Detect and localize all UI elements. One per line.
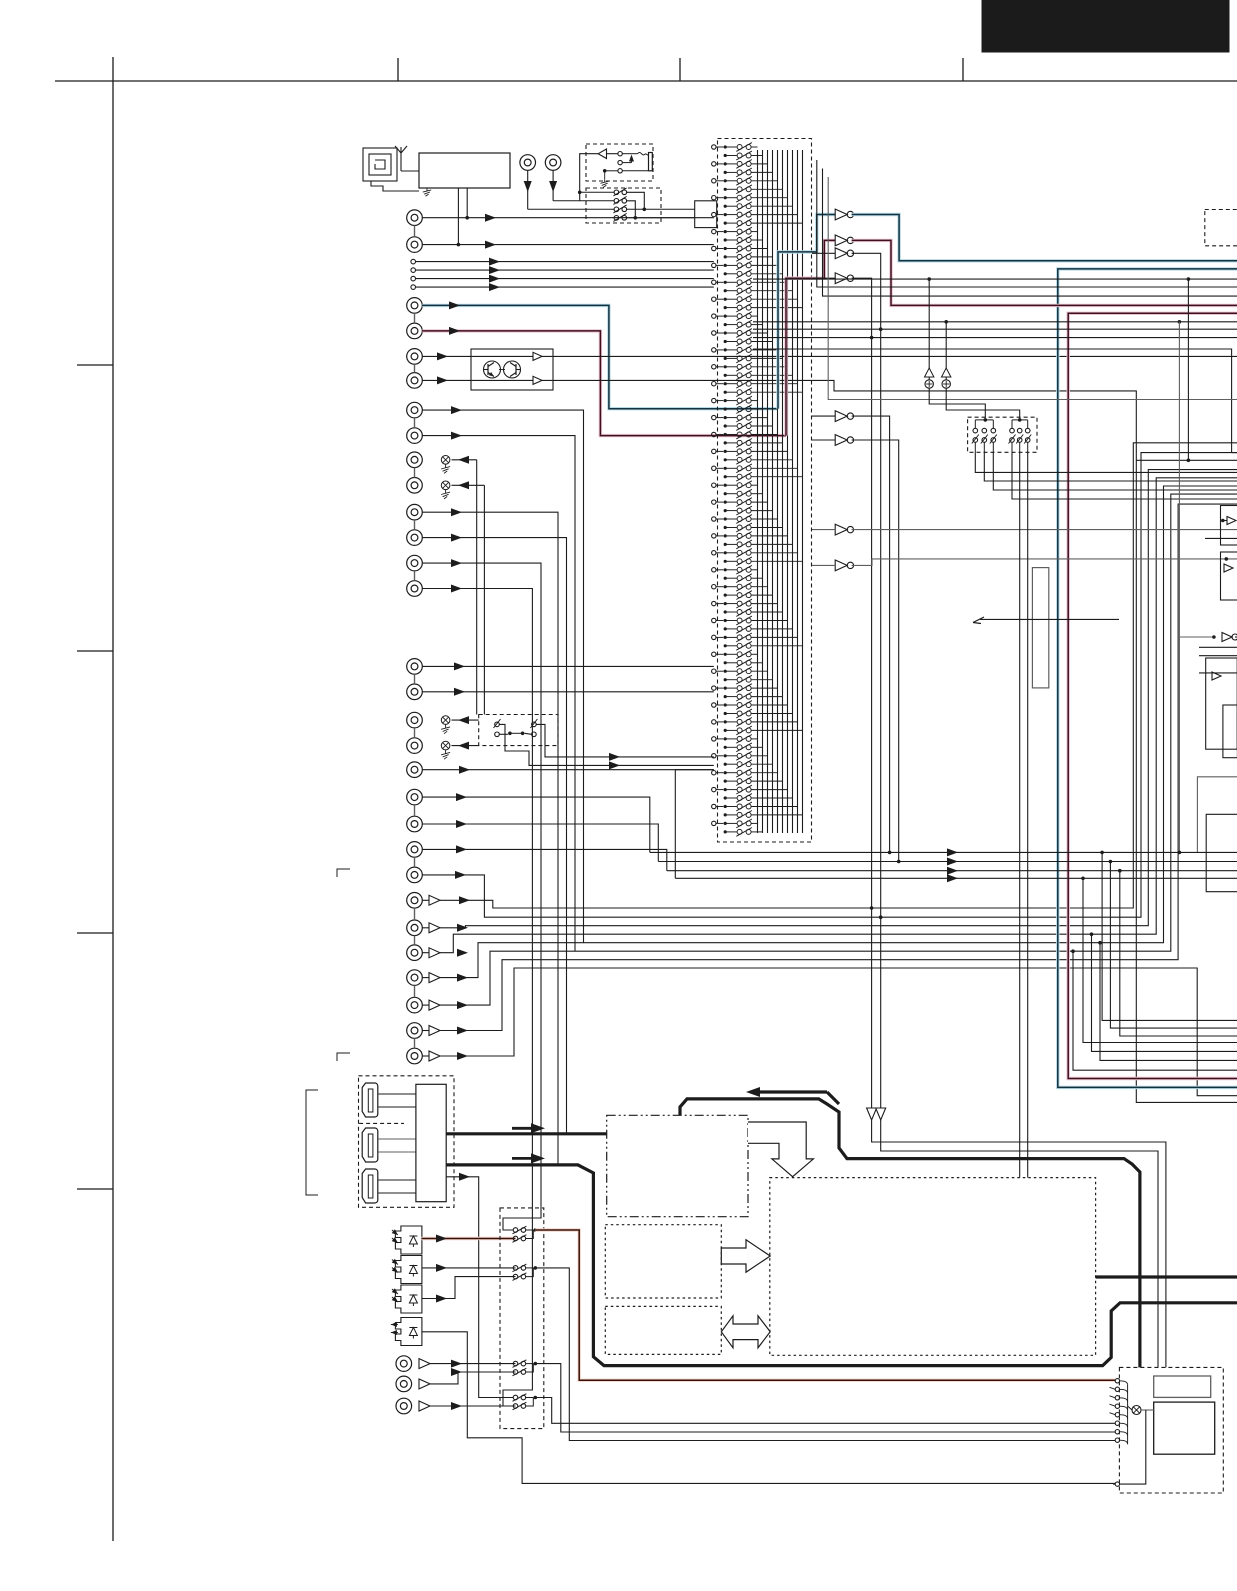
corner mark B	[337, 1053, 350, 1061]
wire crimson B2 out to right	[852, 240, 1237, 305]
wire PHONO R (crimson)	[422, 331, 786, 436]
RCA jack PHONO R	[407, 323, 423, 339]
buffer B4	[835, 273, 847, 284]
wire VIDEO	[422, 769, 714, 771]
RCA jack C1	[407, 893, 423, 909]
RCA jack SAT R	[407, 581, 423, 597]
wire terminal pin 2 to connector	[416, 269, 714, 271]
buffer B1 (teal)	[835, 209, 847, 220]
video switch outputs to DSP	[1019, 452, 1021, 1177]
RCA jack C6	[407, 1023, 423, 1039]
headphone jack contacts	[618, 152, 622, 156]
wire headphone to relay	[580, 154, 599, 201]
buffer in head amp box 2	[533, 376, 542, 384]
optical jack OPT1	[395, 1226, 422, 1254]
jack stem	[414, 571, 416, 581]
reset line	[980, 618, 1119, 620]
RCA jack COAX2	[396, 1376, 412, 1392]
ground symbol at TAPE OUT L	[441, 456, 450, 465]
digital switch SW2	[513, 1266, 518, 1271]
wire COAX2	[430, 1372, 516, 1384]
RCA jack C2	[407, 920, 423, 936]
wire tuner to jacks	[457, 188, 459, 245]
relay switch contact row 1	[580, 191, 614, 193]
video select switch box (dashed)	[968, 417, 1037, 452]
headphone ground	[604, 171, 606, 179]
optical jack OPT3	[395, 1285, 422, 1313]
wire V2	[422, 824, 658, 862]
wire CD L down	[527, 170, 529, 209]
wire SW2 out	[535, 1268, 1115, 1441]
bundle corner verticals 2	[1090, 932, 1094, 936]
wire B3 out to DSP arrow	[852, 253, 881, 1108]
head amp box	[471, 349, 553, 390]
amp box RA2	[1221, 552, 1237, 600]
border tick left 3	[77, 932, 113, 934]
jack stem	[414, 1038, 416, 1048]
sub connector pin 6	[1115, 1421, 1119, 1425]
wire exit row 460	[1136, 459, 1237, 461]
border tick left 4	[77, 1188, 113, 1190]
bundle corner verticals to bottom-right exits	[1102, 852, 1237, 1020]
terminal pin 2	[411, 268, 416, 273]
HDMI thin control wire	[446, 1177, 513, 1398]
wire B6 out	[852, 440, 899, 862]
RCA jack TAPE OUT R	[407, 478, 423, 494]
RCA jack VIDEO	[407, 762, 423, 778]
terminal pin 4	[411, 285, 416, 290]
RCA jack C4	[407, 970, 423, 986]
border tick left 1	[77, 364, 113, 366]
block arrow B to DSP (double)	[721, 1316, 770, 1348]
buffer amp for C7	[429, 1051, 440, 1061]
wire OPT3	[422, 1277, 516, 1299]
video select switch column 5	[1017, 428, 1022, 433]
buffer B3	[835, 248, 847, 259]
HDMI connector 1	[362, 1083, 378, 1117]
jack stem	[414, 226, 416, 237]
HDMI thick output arrow 2	[531, 1153, 545, 1163]
wire OPT4	[422, 1332, 1116, 1484]
jack stem	[414, 313, 416, 323]
wire teal B1 out to right	[852, 215, 1237, 261]
jack stem	[414, 857, 416, 867]
loop antenna ANT1	[363, 148, 397, 181]
RCA jack LINE1 L	[407, 349, 423, 365]
RCA jack C7	[407, 1048, 423, 1064]
video select switch column 4	[1010, 428, 1015, 433]
buffer COAX1	[419, 1359, 430, 1369]
border tick top 3	[962, 58, 964, 81]
RCA jack PHONO L	[407, 298, 423, 314]
video select switch column 6	[1025, 428, 1030, 433]
block arrow from HDMI rx to DSP	[748, 1122, 813, 1177]
thick wire from DSP1 top	[680, 1099, 1140, 1368]
rec select switch 1	[495, 722, 500, 727]
HDMI jack block (dashed)	[359, 1076, 455, 1208]
wire jack TUNER-L to connector	[422, 217, 714, 219]
wire C2	[440, 470, 1237, 928]
terminal pin 3	[411, 276, 416, 281]
jack stem	[414, 728, 416, 738]
corner wire right edge 2 (U)	[1206, 814, 1237, 891]
sub block A (dashed)	[605, 1225, 721, 1298]
sub connector pin 7	[1115, 1430, 1119, 1434]
wire PHONO L (teal)	[422, 305, 778, 408]
wire jack TUNER-R to connector	[422, 244, 714, 246]
HDMI input group divider (dashed)	[359, 1122, 404, 1124]
wire C6	[440, 504, 1237, 1030]
sub connector pin 5	[1115, 1413, 1119, 1417]
jack stem	[414, 674, 416, 684]
RCA jack V1	[407, 789, 423, 805]
wire terminal pin 4 to connector	[416, 286, 714, 288]
thick wire corner	[827, 1092, 839, 1104]
wire teal inside connector	[778, 215, 835, 409]
sub connector pin 8	[1115, 1438, 1119, 1442]
terminal pin 1	[411, 259, 416, 264]
wire crimson return (from right edge)	[1068, 313, 1237, 1078]
wire B4 out to DSP arrow	[852, 278, 872, 1108]
wire from arrow 2 to sub connector	[881, 1120, 1158, 1367]
optical jack OPT2	[395, 1256, 422, 1284]
RCA jack TUNER L	[407, 210, 423, 226]
relay switch contact row 2	[553, 200, 614, 202]
transistor Q1	[484, 361, 501, 378]
video select switch column 3	[991, 428, 996, 433]
corner mark A	[337, 869, 350, 877]
buffer amp for C1	[429, 895, 440, 905]
headphone amp box (dashed)	[586, 144, 653, 181]
block arrow A to DSP	[721, 1240, 770, 1272]
wire B5 out	[852, 416, 890, 852]
wire DVD R	[422, 538, 566, 1134]
wire to MONITOR L	[452, 719, 479, 721]
digital switch SW3	[513, 1361, 518, 1366]
RCA jack AUX R	[407, 684, 423, 700]
border tick top 1	[397, 58, 399, 81]
buffer in RA2	[1224, 564, 1233, 572]
jack stem	[414, 468, 416, 478]
wire exit row A3	[823, 169, 1237, 297]
reset line arrow	[973, 617, 984, 623]
loop antenna lead	[371, 181, 419, 191]
transistor Q2	[504, 361, 521, 378]
jack stem	[414, 985, 416, 997]
ground symbol at TAPE OUT R	[441, 481, 450, 490]
wire LINE1 R to buffer box	[422, 379, 471, 381]
ground symbol MONITOR R	[441, 741, 450, 750]
gray corner to right edge	[1197, 777, 1237, 853]
HDMI connector 3	[362, 1169, 378, 1203]
video switch top ties	[974, 420, 976, 428]
sub connector common vertical	[1127, 1385, 1129, 1444]
page border left vertical	[112, 57, 114, 1541]
HDMI connector 1 leads	[379, 1093, 416, 1095]
amp box RB1	[1206, 658, 1237, 749]
stub wires near right boxes	[1205, 537, 1237, 539]
RCA jack LINE2 R	[407, 428, 423, 444]
wire node down to pin	[1120, 1410, 1146, 1484]
mixing node symbol	[1132, 1406, 1141, 1415]
RCA jack SAT L	[407, 555, 423, 571]
jack stem	[414, 805, 416, 816]
page border top horizontal	[55, 80, 1237, 82]
RCA jack V2	[407, 816, 423, 832]
headphone switch actuator arrow	[622, 162, 631, 164]
buffer COAX2	[419, 1379, 430, 1389]
sub connector pin 1	[1115, 1379, 1119, 1383]
wire V3	[422, 849, 667, 870]
wire from arrow 1 to sub connector	[872, 1120, 1166, 1367]
wire exit row 452	[1232, 452, 1237, 454]
wire DVD L	[422, 512, 558, 1165]
video select switch column 1	[973, 428, 978, 433]
rod antenna ANT2	[400, 153, 402, 171]
wire V1	[422, 797, 650, 852]
border tick left 2	[77, 650, 113, 652]
reset IC (vertical)	[1032, 568, 1048, 688]
rec select outputs to connector	[536, 724, 714, 757]
off-page reference symbol P1	[925, 368, 934, 377]
thick arrow wire	[758, 1090, 827, 1093]
digital input switch box (dashed)	[500, 1208, 544, 1429]
border tick top 2	[679, 58, 681, 81]
wire B7 out to right edge	[852, 529, 1237, 531]
relay output terminal box	[695, 201, 717, 228]
optical jack OPT4 (output)	[395, 1318, 422, 1346]
wire C5	[440, 494, 1237, 1005]
thick DSP output to right edge	[1096, 1275, 1237, 1278]
jack stem	[414, 418, 416, 428]
wire LINE1 L output (to right edge)	[542, 355, 1237, 357]
headphone sleeve contact	[622, 170, 648, 172]
board connector CN101 (dashed outline)	[718, 139, 812, 843]
relay switch contact row 4	[614, 216, 619, 221]
RCA jack CD L	[520, 155, 536, 171]
video switch outputs to right edge	[975, 452, 1237, 472]
wire C4	[440, 486, 1237, 978]
wire LINE1 R output (via bus)	[542, 380, 1237, 1102]
jack stem	[414, 908, 416, 920]
headphone amp buffer	[598, 149, 606, 159]
wire exit row A2	[817, 160, 1237, 287]
bus vertical (gray)	[1178, 322, 1180, 853]
wire B8 out to right edge	[852, 559, 1237, 566]
HDMI switch IC box	[416, 1084, 446, 1201]
RCA jack V3	[407, 842, 423, 858]
lone buffer	[1222, 633, 1232, 642]
wire terminal pin 1 to connector	[416, 261, 714, 263]
wire LINE1 L to buffer box	[422, 355, 471, 357]
wire to MONITOR R	[452, 745, 479, 747]
buffer COAX3	[419, 1401, 430, 1411]
wire SW4 out	[535, 1398, 1115, 1424]
sub board connector box (dashed)	[1119, 1367, 1223, 1493]
sub connector pin 4	[1115, 1404, 1119, 1408]
wire COAX3	[430, 1405, 516, 1407]
connector CN101 pin rows	[712, 145, 716, 149]
wire exit row A8 (gray)	[828, 177, 1237, 400]
RCA jack DVD L	[407, 504, 423, 520]
wire video row 4	[675, 877, 1237, 879]
wire to TAPE OUT R	[452, 484, 485, 486]
connector CN101 bus verticals	[757, 150, 759, 833]
RCA jack TAPE OUT L	[407, 452, 423, 468]
RCA jack LINE1 R	[407, 373, 423, 389]
buffer amp for C5	[429, 1000, 440, 1010]
wire exit row A1	[753, 278, 1237, 280]
wire CD R down	[552, 170, 554, 201]
wire to TAPE OUT L	[452, 459, 477, 461]
wire OPT2	[422, 1267, 516, 1269]
buffer amp for C4	[429, 973, 440, 983]
jack stem	[414, 520, 416, 530]
wire teal return (from right edge)	[1058, 269, 1237, 1088]
buffer amp for C6	[429, 1026, 440, 1036]
wire video row 2	[658, 861, 1237, 863]
HDMI connector 3 leads	[379, 1179, 416, 1181]
wire SW3 out	[535, 1364, 1115, 1432]
RCA jack LINE2 L	[407, 402, 423, 418]
amp box RA1	[1221, 506, 1237, 546]
wire junction vertical V1188	[1187, 279, 1189, 460]
wire P1 to video switch	[929, 388, 985, 419]
RCA jack C5	[407, 997, 423, 1013]
HDMI thick output arrow 1	[531, 1123, 545, 1133]
wire V4	[422, 453, 1237, 918]
wire exit row A6	[753, 337, 1237, 339]
RCA jack V4	[407, 867, 423, 883]
tuner ground	[426, 188, 428, 191]
wire LINE2 R	[422, 436, 575, 952]
wire C7	[440, 968, 1237, 1096]
sub connector pin 2	[1115, 1387, 1119, 1391]
relay output junctions	[627, 192, 645, 209]
wire SAT L	[422, 563, 541, 1230]
rec select switch 2	[532, 722, 537, 727]
RCA jack CD R	[545, 155, 561, 171]
buffer in RB1	[1212, 672, 1221, 680]
RCA jack COAX3	[396, 1398, 412, 1414]
ground symbol MONITOR L	[441, 716, 450, 725]
RCA jack COAX1	[396, 1356, 412, 1372]
wire LINE2 L	[422, 410, 583, 943]
RCA jack TUNER R	[407, 237, 423, 253]
RCA jack AUX L	[407, 659, 423, 675]
wire COAX1	[430, 1363, 516, 1365]
wire SAT R	[422, 589, 532, 1407]
RCA jack MONITOR R	[407, 738, 423, 754]
buffer in head amp box 1	[533, 352, 542, 360]
buffer B2 (crimson)	[835, 235, 847, 246]
wire video row4 riser	[675, 770, 714, 879]
wire C3	[440, 478, 1237, 953]
HDMI receiver block (dash-dot)	[607, 1115, 748, 1216]
wire lone buffer feed	[1179, 636, 1212, 638]
sub board IC2	[1154, 1402, 1215, 1454]
sub connector pin 9	[1115, 1482, 1119, 1486]
HDMI connector 2 leads	[379, 1138, 416, 1140]
wire video row 3	[667, 870, 1237, 872]
RCA jack DVD R	[407, 530, 423, 546]
buffer amp for C3	[429, 948, 440, 958]
sub connector pin 3	[1115, 1396, 1119, 1400]
title block (black)	[982, 0, 1229, 52]
buffer in RA1	[1227, 517, 1236, 525]
video select switch column 2	[982, 428, 987, 433]
digital switch SW4	[513, 1395, 518, 1400]
HDMI thick output wire	[446, 1165, 1237, 1366]
relay switch contact row 3	[528, 208, 614, 210]
buffer B8	[835, 560, 847, 571]
buffer B6	[835, 435, 847, 446]
wire terminal pin 3 to connector	[416, 278, 714, 280]
signal arrows into DSP block	[867, 1108, 877, 1120]
off-page reference symbol P2	[942, 368, 951, 377]
headphone jack sleeve	[649, 153, 653, 171]
wire exit row A4	[753, 321, 1237, 323]
wire exit row A5	[753, 328, 1237, 330]
sub board IC1	[1154, 1376, 1211, 1397]
HDMI connector 2	[362, 1128, 378, 1162]
wire C1	[440, 443, 1237, 908]
wire SW1 out (maroon)	[535, 1230, 1115, 1380]
jack stem	[414, 936, 416, 945]
top right dashed box (off page)	[1205, 210, 1237, 246]
amp box RB2	[1223, 705, 1237, 758]
wire exit row A7	[753, 349, 1232, 453]
relay box (dashed)	[586, 188, 661, 223]
buffer B5	[835, 411, 847, 422]
buffer B7	[835, 524, 847, 535]
wire node to IC2	[1141, 1409, 1154, 1411]
HDMI wire to DSP1	[446, 1132, 607, 1135]
wire P2 to video switch	[946, 388, 1020, 419]
buffer amp for C2	[429, 923, 440, 933]
wire OPT1 (maroon)	[422, 1237, 516, 1240]
jack stem	[414, 364, 416, 372]
tuner unit box	[419, 153, 510, 188]
DSP main block (dashed)	[770, 1178, 1096, 1356]
wire AUX L	[422, 665, 714, 667]
RCA jack C3	[407, 945, 423, 961]
wire AUX R	[422, 691, 714, 693]
rec select switch box (dashed)	[479, 715, 558, 746]
RCA jack MONITOR L	[407, 712, 423, 728]
bracket mark	[306, 1090, 318, 1195]
sub block B (dashed)	[605, 1306, 721, 1354]
wire video row 1	[650, 851, 1237, 853]
wire crimson inside connector	[786, 240, 835, 435]
digital switch SW1	[513, 1228, 518, 1233]
